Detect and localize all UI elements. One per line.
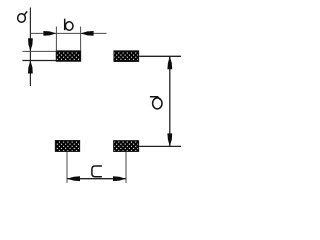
pad top-right [114,51,139,62]
dimension b: extension left [55,27,57,51]
dimension b: extension right [80,27,82,51]
dimension d: down arrow [167,133,172,146]
label d (rotated) [150,97,162,109]
dimension a: extension top [22,50,56,52]
dimension d: extension bottom [139,145,181,147]
dimension b: dim line [30,32,106,34]
dimension a: up arrow [28,61,33,74]
dimension c: dim line [67,178,126,180]
dimension d: extension top [139,55,181,57]
label a (rotated) [18,11,28,22]
dimension a: vertical line [29,8,31,87]
dimension a: down arrow [28,38,33,51]
pad bottom-right [114,141,139,152]
label c [92,166,102,177]
pad bottom-left [55,141,79,152]
pad top-left [56,51,80,61]
dimension c: left arrow (points left) [67,176,80,181]
dimension d: dim line [169,56,171,146]
dimension c: extension left [66,152,68,183]
dimension c: right arrow (points right) [113,176,126,181]
dimension d: up arrow [167,56,172,69]
dimension c: extension right [125,152,127,183]
dimension b: right arrow (points left) [81,31,94,36]
label b [65,19,73,31]
dimension b: left arrow (points right) [43,31,56,36]
dimension a: extension bottom [22,60,56,62]
